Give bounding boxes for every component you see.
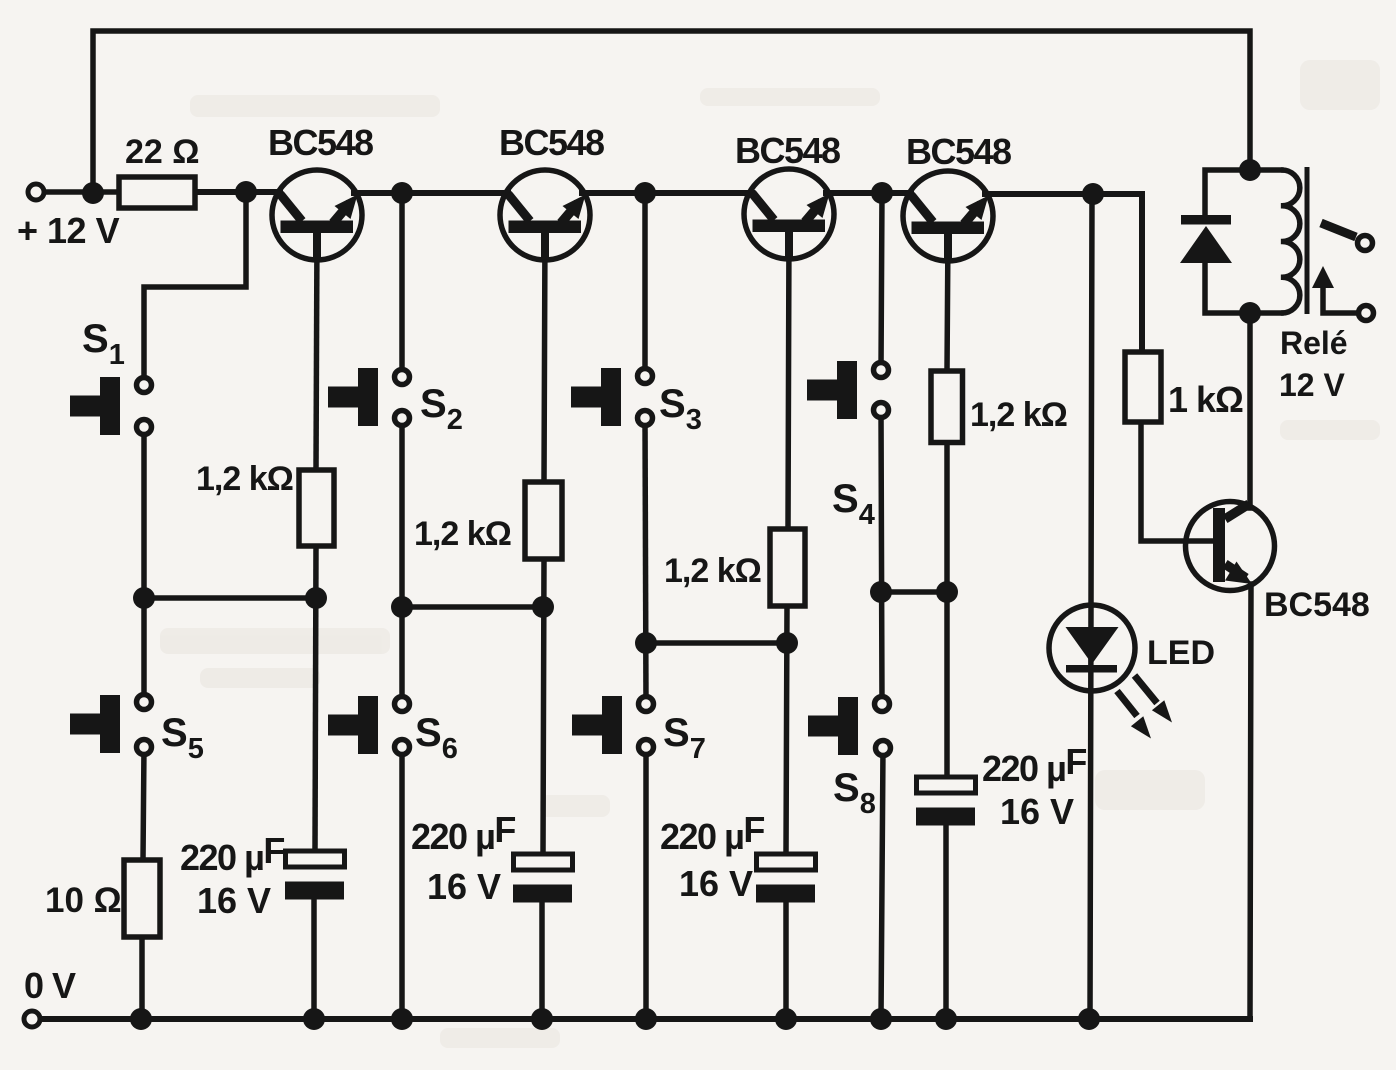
wire S5 to R 10ohm <box>143 747 144 860</box>
node +12V rail left junction <box>82 182 104 204</box>
wire C2 to 0V rail <box>539 900 545 1019</box>
switch S6 plunger <box>328 696 378 754</box>
LED light arrows <box>1117 676 1172 739</box>
node 0V rail junction 6 <box>775 1008 797 1030</box>
wire S8 to 0V rail <box>881 748 883 1019</box>
switch S2 upper contact <box>395 370 410 385</box>
wire rail through LED to 0V rail <box>1090 194 1092 1019</box>
switch S6 upper contact <box>395 697 410 712</box>
switch S4 plunger <box>807 361 857 419</box>
resistor R4 1.2k <box>931 371 963 443</box>
svg-text:1,2 kΩ: 1,2 kΩ <box>970 396 1067 434</box>
wire rail to S3 upper contact <box>642 193 648 376</box>
wire +12V top rail to relay <box>93 31 1250 193</box>
wire C4 to 0V rail <box>943 825 949 1019</box>
wire S1 to S5 <box>141 427 147 702</box>
switch S1 lower contact <box>137 420 152 435</box>
wire Q1 emitter to Q2 collector <box>354 190 508 196</box>
wire Q4 emitter to R 1k <box>985 194 1142 352</box>
relay K1 switch blade <box>1321 223 1356 237</box>
terminal +12V <box>28 184 44 200</box>
svg-text:1,2 kΩ: 1,2 kΩ <box>664 552 761 590</box>
terminal 0V <box>24 1011 40 1027</box>
wire R 1k to Q5 base <box>1141 422 1213 541</box>
wire S2 to S6 <box>399 418 405 704</box>
wire S4 to S8 <box>881 410 882 704</box>
node stage2 right junction <box>532 596 554 618</box>
wire Q4 base to R4 <box>947 231 948 371</box>
svg-text:+ 12 V: + 12 V <box>17 210 120 251</box>
resistor R1 1.2k <box>299 470 334 546</box>
node stage1 right junction <box>305 587 327 609</box>
wire Q2 base to R2 <box>544 230 545 482</box>
transistor Q3 BC548 <box>744 169 834 259</box>
node stage4 right junction <box>936 581 958 603</box>
switch S5 upper contact <box>137 695 152 710</box>
svg-text:1 kΩ: 1 kΩ <box>1168 379 1243 420</box>
relay K1 NO contact terminal <box>1358 236 1373 251</box>
wire R2 to C2 <box>543 559 544 854</box>
wire Q1 base to R1 <box>316 231 317 470</box>
wire rail to S2 upper contact <box>399 193 405 377</box>
wire relay to Q5 collector <box>1247 313 1253 508</box>
transistor Q2 BC548 <box>500 170 590 260</box>
node stage4 left junction <box>870 581 892 603</box>
node stage3 right junction <box>776 632 798 654</box>
node 0V rail junction 4 <box>531 1008 553 1030</box>
relay K1 common terminal <box>1359 306 1374 321</box>
wire R 22ohm to Q1 collector <box>195 189 280 195</box>
capacitor C2 220uF <box>513 854 573 903</box>
switch S7 lower contact <box>639 740 654 755</box>
node LED branch junction <box>1082 183 1104 205</box>
wire Q5 emitter to 0V rail <box>1250 584 1251 1019</box>
svg-text:22 Ω: 22 Ω <box>125 133 200 171</box>
node Q1 collector junction <box>235 181 257 203</box>
wire stage2 node S2/S6 to R2 bottom <box>402 604 543 610</box>
svg-text:16 V: 16 V <box>197 880 271 921</box>
switch S3 lower contact <box>638 411 653 426</box>
node S3 branch junction <box>634 182 656 204</box>
switch S4 lower contact <box>874 403 889 418</box>
node 0V rail junction 1 <box>130 1008 152 1030</box>
node stage2 left junction <box>391 596 413 618</box>
relay K1 armature bar <box>1305 167 1310 314</box>
switch S7 upper contact <box>639 697 654 712</box>
resistor R2 1.2k <box>525 482 562 559</box>
capacitor C3 220uF <box>756 854 816 903</box>
wire rail to S4 upper contact <box>881 193 882 370</box>
wire stage4 node S4/S8 to R4 bottom <box>881 589 947 595</box>
node 0V rail junction 2 <box>303 1008 325 1030</box>
svg-text:BC548: BC548 <box>268 122 373 163</box>
wire R1 to C1 <box>315 546 316 851</box>
wire S7 to 0V rail <box>643 747 649 1019</box>
switch S5 lower contact <box>137 740 152 755</box>
switch S1 plunger <box>70 377 120 435</box>
relay K1 actuation arrow <box>1312 266 1334 288</box>
capacitor C4 220uF <box>916 777 976 826</box>
switch S2 lower contact <box>395 411 410 426</box>
node relay top junction <box>1239 159 1261 181</box>
wire S6 to 0V rail <box>399 747 405 1019</box>
svg-text:220 µF: 220 µF <box>180 830 284 878</box>
switch S6 lower contact <box>395 740 410 755</box>
switch S5 plunger <box>70 695 120 753</box>
resistor R 1k <box>1125 352 1161 422</box>
node 0V rail junction 9 <box>1078 1008 1100 1030</box>
wire 0V bottom rail <box>42 1016 1250 1022</box>
svg-text:1,2 kΩ: 1,2 kΩ <box>196 460 293 498</box>
LED D2 <box>1049 605 1135 691</box>
switch S8 upper contact <box>875 697 890 712</box>
resistor 22 ohm <box>119 177 195 208</box>
svg-text:220 µF: 220 µF <box>660 809 764 857</box>
node S2 branch junction <box>391 182 413 204</box>
wire stage3 node S3/S7 to R3 bottom <box>646 640 787 646</box>
wire Q3 base to R3 <box>788 230 789 529</box>
resistor R3 1.2k <box>770 529 805 606</box>
transistor Q1 BC548 <box>272 170 362 260</box>
switch S8 plunger <box>808 697 858 755</box>
node relay bottom junction <box>1239 302 1261 324</box>
svg-text:Relé: Relé <box>1280 325 1348 361</box>
resistor 10 ohm <box>124 860 160 937</box>
wire Q3 emitter to Q4 collector <box>826 190 911 196</box>
switch S2 plunger <box>328 368 378 426</box>
capacitor C1 220uF <box>285 851 345 900</box>
wire Q2 emitter to Q3 collector <box>582 190 752 196</box>
relay K1 coil <box>1281 170 1300 313</box>
switch S8 lower contact <box>876 741 891 756</box>
wire stage1 node S1/S5 to R1 bottom <box>144 595 316 601</box>
node 0V rail junction 3 <box>391 1008 413 1030</box>
svg-text:12 V: 12 V <box>1279 367 1345 403</box>
svg-text:10 Ω: 10 Ω <box>45 881 122 920</box>
node 0V rail junction 7 <box>870 1008 892 1030</box>
relay K1 common wire <box>1323 290 1356 313</box>
wire R 10ohm to 0V rail <box>139 937 145 1019</box>
wire R3 to C3 <box>786 606 787 854</box>
svg-text:LED: LED <box>1147 634 1215 672</box>
svg-text:16 V: 16 V <box>679 863 753 904</box>
svg-text:BC548: BC548 <box>735 130 840 171</box>
svg-text:1,2 kΩ: 1,2 kΩ <box>414 515 511 553</box>
svg-text:16 V: 16 V <box>1000 791 1074 832</box>
node stage3 left junction <box>635 632 657 654</box>
svg-text:0 V: 0 V <box>24 965 76 1006</box>
wire S3 to S7 <box>645 418 646 704</box>
transistor Q4 BC548 <box>903 171 993 261</box>
switch S3 upper contact <box>638 369 653 384</box>
wire +12V terminal to R 22ohm <box>44 189 119 195</box>
wire R4 to C4 <box>944 442 950 777</box>
node S4 branch junction <box>871 182 893 204</box>
node 0V rail junction 8 <box>935 1008 957 1030</box>
svg-text:BC548: BC548 <box>499 122 604 163</box>
svg-text:BC548: BC548 <box>906 131 1011 172</box>
diode D1 flyback <box>1180 215 1232 263</box>
svg-text:220 µF: 220 µF <box>411 809 515 857</box>
node stage1 left junction <box>133 587 155 609</box>
svg-text:220 µF: 220 µF <box>982 741 1086 789</box>
wire C1 to 0V rail <box>311 899 317 1019</box>
transistor Q5 BC548 output <box>1186 502 1275 591</box>
relay K1 coil loop wiring <box>1205 170 1281 216</box>
switch S1 upper contact <box>137 378 152 393</box>
wire C3 to 0V rail <box>783 900 789 1019</box>
switch S7 plunger <box>572 696 622 754</box>
wire node to S1 upper contact <box>144 193 246 385</box>
svg-text:BC548: BC548 <box>1264 586 1370 624</box>
node 0V rail junction 5 <box>635 1008 657 1030</box>
svg-text:16 V: 16 V <box>427 866 501 907</box>
switch S4 upper contact <box>874 363 889 378</box>
switch S3 plunger <box>571 368 621 426</box>
